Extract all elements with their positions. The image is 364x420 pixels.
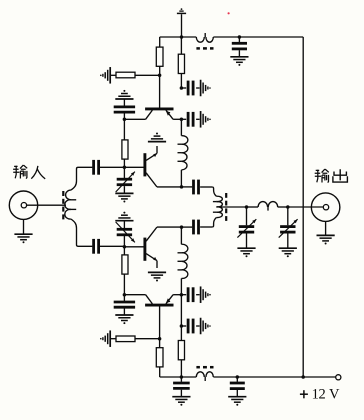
- wire bottom rail right segment: [237, 376, 303, 378]
- capacitor C2 to ground (right): [181, 87, 186, 89]
- wire tap to L5: [247, 206, 259, 208]
- wire top rail mid segment: [213, 36, 239, 38]
- wire output tap: [221, 206, 247, 208]
- choke L3 (vertical, loops right): [181, 244, 187, 253]
- ground for C3 (pointing right): [201, 111, 211, 128]
- wire L5 to trimmer node: [278, 206, 288, 208]
- resistor R7 (horizontal with ground, bottom): [111, 338, 116, 340]
- transformer T2 winding with leads: [212, 187, 216, 196]
- wire bottom rail mid segment: [213, 376, 237, 378]
- node +12V rail junction: [301, 375, 305, 379]
- capacitor C8 bypass to lower ground: [123, 295, 125, 301]
- terminal +12V (open circle): [336, 375, 341, 380]
- wire node down to choke L3: [180, 227, 182, 244]
- node Q2 base bias junction: [123, 166, 127, 170]
- ground for C2 (pointing right): [201, 80, 211, 97]
- ground for C13: [172, 397, 190, 406]
- wire Q1 base lead: [159, 75, 161, 107]
- text label 输出 (output): [315, 169, 329, 183]
- capacitor C5 bypass to upper ground: [123, 114, 125, 120]
- choke L2 (vertical, loops right): [181, 136, 187, 145]
- transistor Q3 collector lead (up-right): [146, 227, 157, 241]
- ground for C1: [230, 57, 248, 66]
- node Q2 collector / choke / coupling junction: [180, 185, 184, 189]
- transformer T2 core (dashed): [225, 193, 227, 198]
- node bottom rail bypass junction: [236, 375, 240, 379]
- svg-text:V: V: [329, 387, 340, 403]
- trimmer capacitor CT3: [246, 207, 248, 225]
- transistor Q2 base bar (vertical): [143, 153, 146, 176]
- capacitor C11 to ground (right): [181, 325, 186, 327]
- wire rail to +12V terminal: [303, 376, 336, 378]
- transistor Q4 collector lead (up-left): [146, 295, 153, 304]
- node Q4 emitter junction: [180, 293, 184, 297]
- capacitor C9 output coupling (bottom): [182, 226, 193, 228]
- wire choke L2 to node: [180, 170, 182, 187]
- trimmer capacitor CT4: [287, 207, 289, 225]
- transistor Q3 emitter lead with arrow (down-right): [146, 254, 157, 261]
- node bottom rail / R6 junction: [180, 375, 184, 379]
- capacitor C13 rail bypass at R6: [180, 377, 182, 382]
- svg-text:2: 2: [318, 387, 325, 403]
- trimmer capacitor CT1 below node: [123, 167, 125, 178]
- wire +12V right-side vertical: [302, 37, 304, 377]
- transistor Q1 emitter lead with arrow (down-right): [166, 110, 173, 119]
- inductor L5 on output line: [258, 202, 268, 207]
- resistor R4 (vertical bias): [123, 119, 125, 140]
- transistor Q1 base bar: [145, 107, 173, 110]
- transistor Q3 base bar (vertical): [143, 238, 146, 261]
- capacitor C1 top rail bypass: [238, 37, 240, 42]
- resistor R1 (vertical, below rail left corner): [159, 37, 161, 47]
- transistor Q1 collector lead (down-left): [146, 110, 153, 119]
- wire C6 to output transformer: [200, 186, 212, 188]
- node output line / trimmer CT4: [286, 205, 290, 209]
- wire C7 to bottom bias node: [100, 245, 124, 247]
- ground for CT3: [237, 248, 255, 257]
- ground for J1: [23, 219, 25, 234]
- node output tap / trimmer CT3: [245, 205, 249, 209]
- node Q1 collector / bypass junction: [123, 118, 127, 122]
- wire down to choke L2: [180, 119, 182, 135]
- capacitor C3 to ground (right): [181, 118, 186, 120]
- node below R3: [180, 86, 184, 90]
- ground for C10 (pointing right): [201, 286, 211, 303]
- ground for J2: [325, 221, 327, 235]
- ground for CT2 (pointing up): [115, 212, 133, 221]
- capacitor C4 input coupling (top): [94, 160, 99, 175]
- ground for C5 (pointing up): [115, 90, 133, 99]
- ground for C12: [228, 397, 246, 406]
- transformer T1 core (dashed): [62, 191, 64, 196]
- ground for Q3 emitter (pointing down): [148, 272, 166, 281]
- capacitor C6 output coupling (top): [182, 186, 193, 188]
- capacitor C10 to ground (right): [181, 294, 186, 296]
- text label 输入 (input): [13, 165, 27, 179]
- node C1 junction: [238, 35, 242, 39]
- capacitor C12 bottom rail bypass: [236, 377, 238, 382]
- choke L1 on top rail (two loops, core dashes below): [196, 37, 204, 42]
- node Q3 collector / choke / coupling junction: [180, 225, 184, 229]
- text label +12V: [300, 393, 308, 395]
- red speck artifact: [228, 12, 230, 14]
- ground for CT1: [115, 193, 133, 202]
- trimmer capacitor CT2 above node: [123, 236, 125, 247]
- wire C9 to output transformer: [200, 226, 212, 228]
- node R7/R8 junction: [158, 337, 162, 341]
- ground for R7 (pointing left): [100, 330, 110, 347]
- ground for R2 (pointing left): [100, 67, 110, 84]
- transistor Q2 collector lead (down-right): [146, 173, 157, 187]
- connector J1 input BNC: [9, 191, 37, 219]
- ground for CT4: [279, 248, 297, 257]
- wire top rail right segment: [239, 36, 303, 38]
- node Q1 emitter junction: [180, 118, 184, 122]
- text label 入 of 输入: [31, 166, 38, 179]
- node top rail junction: [180, 35, 184, 39]
- wire top rail left segment: [160, 36, 197, 38]
- transformer T1 winding with leads: [71, 167, 93, 190]
- node below C10: [180, 324, 184, 328]
- node R1/R2 junction: [158, 74, 162, 78]
- resistor R5 (vertical bias bottom): [123, 247, 125, 255]
- node Q3 base bias junction: [123, 245, 127, 249]
- wire Q3 base lead: [124, 246, 143, 248]
- capacitor C7 input coupling (bottom): [94, 239, 99, 254]
- wire input cap to bias node: [100, 166, 124, 168]
- wire output line to BNC: [288, 206, 323, 208]
- resistor R8 (vertical, to bottom rail): [159, 339, 161, 348]
- wire choke L3 down to node: [180, 278, 182, 294]
- wire Q2 base lead: [124, 166, 143, 168]
- connector J2 output BNC: [311, 193, 340, 222]
- text label 出 of 输出: [333, 169, 348, 182]
- transistor Q4 emitter lead with arrow (up-right): [166, 295, 173, 304]
- resistor R3 (vertical, below rail node): [180, 37, 182, 54]
- resistor R2 (horizontal with ground): [111, 74, 116, 76]
- wire input line: [27, 204, 66, 206]
- choke L4 on bottom rail (two loops, core dashes above): [196, 372, 204, 377]
- node Q4 collector / bypass junction: [123, 293, 127, 297]
- ground for Q2 emitter (pointing up): [148, 133, 166, 142]
- power symbol (supply stub) at top: [177, 12, 186, 14]
- resistor R6 (vertical, above bottom rail): [180, 295, 182, 341]
- wire bottom rail left segment: [160, 376, 197, 378]
- transistor Q2 emitter lead with arrow (up-right): [146, 153, 157, 160]
- transistor Q4 base bar: [145, 304, 173, 307]
- ground for C8: [115, 315, 133, 324]
- ground for C11 (pointing right): [201, 318, 211, 335]
- wire power stub down to top rail: [181, 14, 183, 37]
- wire Q4 base lead: [159, 306, 161, 338]
